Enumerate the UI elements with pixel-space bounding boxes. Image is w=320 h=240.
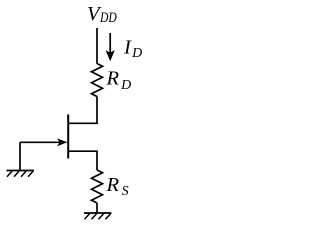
svg-text:I: I — [123, 36, 132, 58]
node VDD label — [87, 3, 117, 26]
svg-text:S: S — [122, 184, 129, 199]
wire RD to drain — [68, 97, 97, 124]
ground (gate) — [7, 171, 35, 177]
svg-text:D: D — [131, 46, 142, 61]
wire VDD to RD — [96, 28, 98, 64]
svg-text:D: D — [120, 78, 131, 93]
svg-text:R: R — [106, 174, 120, 196]
current arrow ID — [106, 33, 115, 61]
ground (source) — [84, 213, 112, 219]
label RS — [106, 174, 129, 199]
label ID — [123, 36, 142, 61]
gate wire with arrow — [20, 138, 68, 170]
resistor RS — [92, 170, 103, 203]
svg-text:DD: DD — [99, 10, 117, 26]
wire source — [68, 151, 97, 170]
transistor Q1 (JFET) channel bar — [67, 114, 69, 158]
label RD — [106, 68, 132, 93]
wire RS to ground — [96, 203, 98, 213]
resistor RD — [92, 64, 103, 97]
svg-text:R: R — [106, 68, 120, 90]
